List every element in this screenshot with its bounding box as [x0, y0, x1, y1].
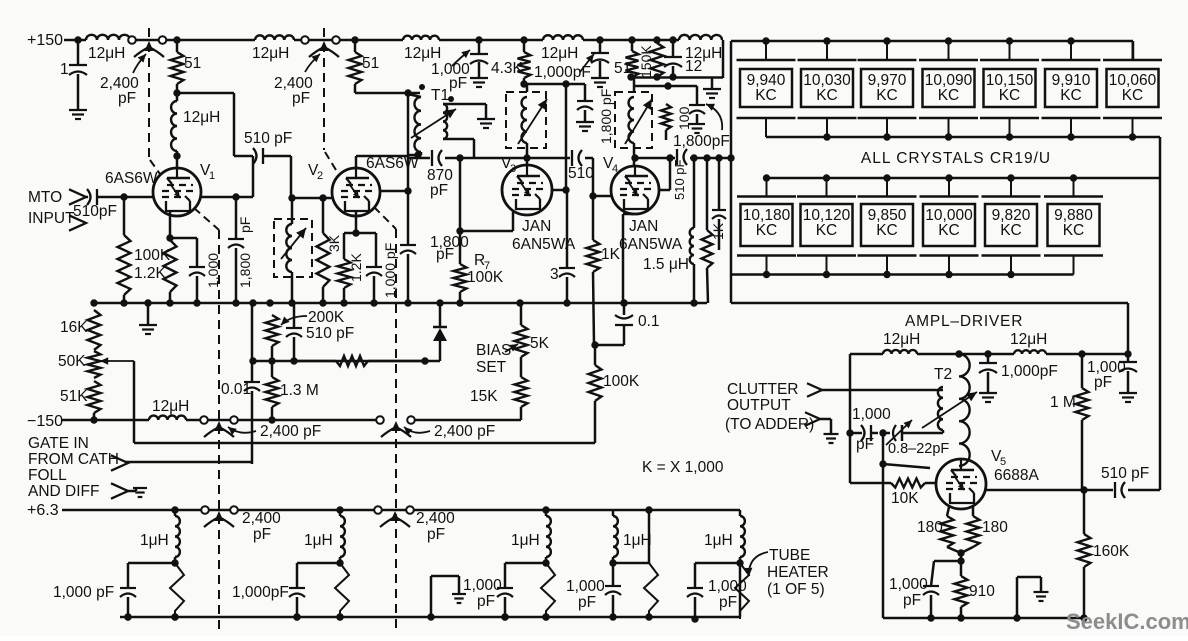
crystal 9,910 KC: [1042, 41, 1101, 137]
svg-text:6688A: 6688A: [994, 467, 1039, 484]
junction V4 grid line: [631, 154, 638, 161]
svg-text:1,000 pF: 1,000 pF: [53, 584, 114, 601]
capacitor 510 interstage V3-V4: [527, 150, 594, 182]
svg-text:1.3 M: 1.3 M: [280, 382, 319, 399]
wire V1 cathode to cap: [170, 238, 197, 267]
svg-text:12μH: 12μH: [252, 45, 289, 62]
svg-text:AMPL–DRIVER: AMPL–DRIVER: [905, 313, 1023, 330]
wire bias line y361: [249, 357, 428, 364]
junction ampl rail dots: [955, 350, 1085, 357]
feedthrough 2,400pF +6.3 shield2: [374, 506, 455, 543]
svg-text:pF: pF: [292, 90, 310, 107]
svg-text:12μH: 12μH: [541, 45, 578, 62]
svg-text:510: 510: [568, 165, 594, 182]
wire crystal right link: [1159, 137, 1162, 490]
svg-text:OUTPUT: OUTPUT: [727, 397, 791, 414]
svg-text:1,000pF: 1,000pF: [1001, 363, 1058, 380]
svg-text:+6.3: +6.3: [27, 502, 59, 519]
junction heater rail dots: [171, 506, 652, 513]
capacitor 1,800pF V1 plate: [201, 193, 253, 303]
resistor R7 100K: [454, 158, 504, 303]
variable inductor V3 grid (dashed box): [506, 84, 547, 165]
svg-text:10K: 10K: [891, 490, 919, 507]
label JAN 6AN5WA V3: [512, 218, 576, 253]
resistor 1K V4 grid: [587, 158, 621, 345]
svg-text:pF: pF: [449, 75, 467, 92]
capacitor 1,800pF V3 plate: [576, 84, 614, 144]
svg-text:−150: −150: [27, 413, 63, 430]
capacitor 1,000 pF cathode: [889, 561, 961, 618]
label 6AS6W V1: [105, 170, 158, 187]
svg-text:KC: KC: [756, 222, 778, 239]
junction V1 top: [173, 152, 180, 169]
wire gate arrow link: [125, 461, 252, 464]
svg-text:200K: 200K: [308, 309, 345, 326]
svg-text:1μH: 1μH: [511, 532, 540, 549]
tube V3 6AN5WA: [502, 165, 552, 215]
capacitor 1,000pF rail bypass 2: [534, 40, 609, 87]
heater stage 1: [53, 510, 184, 621]
svg-text:510 pF: 510 pF: [672, 159, 687, 200]
svg-text:MTO: MTO: [28, 189, 62, 206]
crystal 10,180 KC: [737, 178, 796, 275]
wire +6.3 rail: [62, 509, 740, 512]
junction crystal input: [727, 154, 734, 161]
heater stage 5: [687, 510, 749, 623]
capacitor 510pF 200K: [286, 303, 354, 361]
resistor 16K: [60, 310, 101, 350]
crystal 9,940 KC: [737, 41, 796, 137]
wire crystal top bus: [731, 41, 1133, 60]
wire V4 cathode: [623, 214, 635, 303]
svg-text:2: 2: [317, 170, 323, 182]
resistor 51K: [60, 381, 101, 420]
junction +150/V1: [173, 36, 180, 43]
junction rail x657: [653, 36, 660, 43]
wire clutter to T2: [822, 389, 943, 392]
svg-text:pF: pF: [903, 592, 921, 609]
inductor 12uH rail 4: [541, 35, 583, 62]
svg-text:KC: KC: [876, 87, 898, 104]
label V3: [501, 155, 516, 175]
capacitor 1,000pF rail bypass 1: [431, 40, 488, 92]
feedthrough capacitor 2,400pF shield1: [100, 36, 166, 107]
connector CLUTTER OUTPUT: [725, 381, 822, 433]
svg-text:15K: 15K: [470, 388, 498, 405]
svg-text:160K: 160K: [1093, 543, 1130, 560]
wire ampl left drop: [849, 354, 852, 433]
crystal 10,060 KC: [1103, 41, 1162, 137]
svg-text:T2: T2: [934, 366, 952, 383]
wire V2 plate node: [355, 89, 420, 96]
svg-text:KC: KC: [816, 222, 838, 239]
svg-text:T1: T1: [431, 87, 449, 104]
wire ampl bottom bus: [883, 617, 1086, 620]
svg-text:SET: SET: [476, 359, 507, 376]
svg-text:1,000: 1,000: [708, 578, 747, 595]
transformer T2: [922, 354, 977, 466]
ground node A: [703, 78, 721, 99]
capacitor 0.1: [591, 299, 659, 348]
capacitor 12: [664, 40, 702, 78]
capacitor 1,800pF output coupling: [635, 149, 731, 165]
wire gate line: [134, 442, 595, 445]
junction rail x600: [596, 36, 603, 43]
svg-text:1μH: 1μH: [140, 532, 169, 549]
label AMPL-DRIVER: [905, 313, 1023, 330]
wire crystal row2 bottom bus: [731, 273, 1074, 276]
svg-text:INPUT: INPUT: [28, 210, 75, 227]
svg-text:ALL CRYSTALS CR19/U: ALL CRYSTALS CR19/U: [861, 150, 1051, 167]
crystal 9,880 KC: [1044, 178, 1103, 275]
inductor 12uH rail 5: [679, 35, 722, 62]
svg-text:SeekIC.com: SeekIC.com: [1066, 609, 1188, 634]
junction rail x632: [628, 36, 635, 43]
capacitor 1 (input filter): [60, 36, 87, 119]
svg-text:2,400: 2,400: [242, 510, 281, 527]
resistor 3K: [317, 198, 343, 303]
svg-text:51K: 51K: [60, 388, 88, 405]
svg-text:100: 100: [676, 106, 692, 130]
resistor 1.2K V2: [338, 233, 365, 303]
wire 870 line: [408, 150, 527, 199]
svg-text:KC: KC: [1063, 222, 1085, 239]
svg-text:KC: KC: [816, 87, 838, 104]
capacitor 1,800pF V4 bypass: [673, 104, 730, 150]
wire node B y86: [634, 78, 697, 106]
svg-text:6AS6W: 6AS6W: [105, 170, 158, 187]
junction cathode: [957, 549, 964, 564]
wire -150 rail: [62, 416, 521, 423]
wire V2 cathode: [352, 210, 359, 237]
junction V3 grid line: [523, 154, 530, 161]
svg-text:1,800 pF: 1,800 pF: [598, 89, 614, 144]
svg-text:510 pF: 510 pF: [244, 130, 292, 147]
label BIAS SET: [476, 342, 518, 376]
capacitor 3 V3 plate: [550, 190, 575, 303]
tube V5 6688A: [936, 459, 986, 509]
wire V4 plate: [659, 154, 674, 190]
svg-text:KC: KC: [876, 222, 898, 239]
resistor 160K: [1078, 490, 1130, 618]
svg-text:2,400 pF: 2,400 pF: [260, 423, 321, 440]
resistor 100K 1.2K grid: [118, 197, 171, 303]
junction V1 51/coil: [173, 89, 180, 96]
wire V2 grid: [288, 194, 332, 201]
svg-text:4.3K: 4.3K: [491, 60, 524, 77]
svg-text:3K: 3K: [326, 234, 342, 252]
crystal 9,820 KC: [982, 178, 1041, 275]
svg-text:12μH: 12μH: [183, 109, 220, 126]
wire crystal row2 top bus: [766, 177, 1160, 180]
resistor 180 right: [961, 507, 1008, 553]
feedthrough capacitor 2,400pF shield2: [274, 36, 340, 107]
transformer T1: [408, 84, 495, 159]
svg-text:12: 12: [685, 58, 702, 75]
label V2: [308, 162, 323, 182]
resistor 10K: [850, 433, 936, 507]
resistor 100K bias: [589, 345, 640, 443]
resistor 200K pot: [266, 309, 345, 346]
label V1: [200, 162, 215, 182]
wire crystal to ampl connector: [731, 303, 1128, 354]
resistor 51 (V2 plate): [349, 40, 380, 93]
shield partition 2 lower: [374, 207, 396, 631]
junction V1 grid: [120, 193, 127, 200]
svg-text:510 pF: 510 pF: [306, 325, 354, 342]
connector GATE IN: [28, 435, 128, 500]
svg-text:(1 OF 5): (1 OF 5): [767, 581, 825, 598]
connector MTO INPUT: [28, 189, 86, 231]
resistor 4.3K: [491, 40, 531, 84]
svg-text:CLUTTER: CLUTTER: [727, 381, 798, 398]
svg-text:51: 51: [362, 55, 379, 72]
resistor 100 bias: [294, 356, 425, 366]
resistor 150K: [638, 40, 664, 78]
svg-text:FROM CATH: FROM CATH: [28, 451, 119, 468]
svg-text:1 M: 1 M: [1050, 394, 1076, 411]
shield partition 1 upper: [149, 28, 160, 174]
svg-text:150K: 150K: [638, 45, 654, 78]
tube V1 6AS6W: [153, 168, 201, 216]
inductor 12uH V1 plate: [171, 93, 220, 156]
capacitor 510 pF output: [672, 158, 726, 250]
resistor 1K output: [702, 158, 727, 303]
ground heater 3: [427, 576, 466, 621]
wire node A y78: [627, 73, 723, 80]
svg-text:510 pF: 510 pF: [1101, 465, 1149, 482]
svg-text:1,000: 1,000: [205, 253, 221, 288]
svg-text:1,000: 1,000: [463, 577, 502, 594]
svg-text:AND DIFF: AND DIFF: [28, 483, 99, 500]
watermark SeekIC.com: [1066, 609, 1188, 634]
svg-text:12μH: 12μH: [152, 398, 189, 415]
inductor 12uH ampl 1: [883, 331, 920, 354]
svg-text:1,000: 1,000: [566, 578, 605, 595]
svg-text:2,400: 2,400: [416, 510, 455, 527]
svg-text:50K: 50K: [58, 353, 86, 370]
svg-text:FOLL: FOLL: [28, 467, 67, 484]
svg-text:pF: pF: [719, 594, 737, 611]
wire V2 top stub: [356, 93, 408, 191]
svg-text:100K: 100K: [134, 247, 171, 264]
svg-text:1,000pF: 1,000pF: [534, 64, 591, 81]
junction clutter node: [879, 429, 886, 436]
junction dots row2 bottom bus: [763, 271, 1015, 278]
resistor 1M: [1050, 354, 1089, 490]
svg-text:180: 180: [917, 519, 943, 536]
svg-text:KC: KC: [1060, 87, 1082, 104]
label JAN 6AN5WA V4: [619, 218, 683, 253]
svg-text:1μH: 1μH: [623, 532, 652, 549]
svg-text:3: 3: [550, 266, 559, 283]
inductor 12uH rail 1: [86, 35, 130, 62]
svg-text:1μH: 1μH: [704, 532, 733, 549]
wire V1 plate to 510pF: [177, 93, 253, 156]
svg-text:1: 1: [209, 170, 215, 182]
label TUBE HEATER: [745, 547, 829, 598]
svg-text:JAN: JAN: [629, 218, 658, 235]
svg-text:1.5 μH: 1.5 μH: [643, 256, 689, 273]
feedthrough 2,400pF -150 shield2: [376, 416, 495, 440]
svg-text:510pF: 510pF: [73, 203, 117, 220]
svg-text:pF: pF: [237, 217, 253, 233]
crystal 10,120 KC: [797, 178, 856, 275]
net -150 label: [27, 413, 63, 430]
svg-text:TUBE: TUBE: [769, 547, 810, 564]
inductor 12uH rail 3: [403, 36, 441, 62]
svg-text:1,800: 1,800: [237, 253, 253, 288]
svg-text:12μH: 12μH: [1010, 331, 1047, 348]
svg-text:100K: 100K: [467, 269, 504, 286]
capacitor 1,800pF V2 plate: [380, 187, 469, 303]
svg-text:1: 1: [60, 61, 69, 78]
svg-text:1,000 pF: 1,000 pF: [382, 243, 398, 298]
svg-text:1,800pF: 1,800pF: [673, 133, 730, 150]
wire ground bus: [94, 302, 707, 305]
crystal 10,090 KC: [919, 41, 978, 137]
svg-text:GATE IN: GATE IN: [28, 435, 89, 452]
wire V3 plate node: [520, 80, 585, 87]
svg-text:6AN5WA: 6AN5WA: [619, 236, 683, 253]
wire 50K tap: [133, 361, 136, 443]
svg-text:0.8–22pF: 0.8–22pF: [888, 441, 949, 457]
svg-text:+150: +150: [27, 32, 63, 49]
wire V1 cathode: [166, 210, 173, 242]
resistor V1 cathode: [164, 240, 177, 303]
capacitor 1,000 pF V2 cathode: [356, 233, 398, 303]
svg-text:1,000: 1,000: [889, 576, 928, 593]
wire heater bottom bus: [120, 563, 740, 617]
label 6688A: [994, 467, 1039, 484]
crystal 9,970 KC: [858, 41, 917, 137]
resistor 51 (V1 plate): [171, 40, 202, 93]
wire grid riser: [879, 433, 930, 468]
resistor 910: [955, 561, 996, 618]
capacitor 0.01: [221, 381, 260, 398]
tube V4 6AN5WA: [611, 166, 659, 214]
svg-text:1,000: 1,000: [852, 406, 891, 423]
wire crystal row1 bottom bus: [766, 136, 1160, 139]
svg-text:pF: pF: [856, 436, 874, 453]
resistor 50K pot: [58, 351, 134, 378]
wire crystal left frame: [730, 41, 733, 303]
svg-text:1K: 1K: [601, 246, 621, 263]
junction dots ground bus: [90, 299, 697, 306]
resistor 5K pot: [515, 303, 550, 357]
junction rail x673: [669, 36, 676, 43]
svg-text:5K: 5K: [530, 335, 550, 352]
heater stage 3: [463, 510, 555, 621]
svg-text:12μH: 12μH: [883, 331, 920, 348]
svg-text:910: 910: [969, 583, 995, 600]
wire +150 rail: [72, 39, 679, 42]
label ALL CRYSTALS CR19/U: [861, 150, 1051, 167]
svg-text:0.1: 0.1: [638, 313, 660, 330]
svg-text:HEATER: HEATER: [767, 564, 829, 581]
wire V3 plate: [552, 84, 570, 194]
capacitor 1,000 pF ampl 2: [1087, 354, 1137, 402]
wire V5 plate: [985, 486, 1088, 493]
wire gate riser: [251, 303, 254, 464]
svg-text:3: 3: [510, 163, 516, 175]
net +6.3 label: [27, 502, 59, 519]
svg-text:pF: pF: [430, 182, 448, 199]
svg-text:(TO ADDER): (TO ADDER): [725, 416, 814, 433]
svg-text:12μH: 12μH: [404, 45, 441, 62]
junction rail x524: [520, 36, 527, 43]
capacitor 1,000 pF clutter: [846, 406, 891, 453]
svg-text:1,000pF: 1,000pF: [232, 584, 289, 601]
svg-text:180: 180: [982, 519, 1008, 536]
junction dots ampl bottom: [927, 614, 1087, 621]
svg-text:100K: 100K: [603, 373, 640, 390]
wire rail end drop: [722, 40, 723, 78]
wire ampl rail: [850, 350, 1132, 357]
svg-text:pF: pF: [578, 594, 596, 611]
svg-text:51: 51: [184, 55, 201, 72]
tube V2 6AS6W: [332, 168, 380, 216]
svg-text:JAN: JAN: [522, 218, 551, 235]
svg-text:pF: pF: [436, 246, 454, 263]
resistor 51 (V4): [614, 40, 639, 77]
inductor 1.5uH: [643, 158, 694, 303]
feedthrough 2,400pF +6.3 shield1: [201, 506, 281, 543]
variable inductor V4 grid (dashed box): [615, 86, 652, 165]
svg-text:pF: pF: [118, 90, 136, 107]
capacitor 1,000 V1 cathode: [189, 253, 221, 303]
junction dots row1 bottom bus: [823, 133, 1136, 140]
feedthrough 2,400pF -150 shield1: [200, 416, 321, 440]
svg-text:KC: KC: [1000, 222, 1022, 239]
junction rail x479: [475, 36, 482, 43]
capacitor 510 pF output: [1084, 465, 1160, 498]
crystal 10,030 KC: [798, 41, 857, 137]
svg-text:KC: KC: [938, 87, 960, 104]
svg-text:KC: KC: [1122, 87, 1144, 104]
inductor 12uH ampl 2: [1010, 331, 1047, 354]
ground clutter: [820, 419, 839, 443]
svg-text:1.2K: 1.2K: [134, 265, 167, 282]
inductor 12uH -150: [149, 398, 189, 420]
wire grid riser down: [882, 464, 885, 618]
svg-text:12μH: 12μH: [88, 45, 125, 62]
junction dots heater bottom: [124, 613, 549, 620]
crystal 10,150 KC: [980, 41, 1039, 137]
wire V3 cathode: [456, 212, 513, 235]
label 6AS6W V2: [366, 155, 419, 172]
svg-text:KC: KC: [999, 87, 1021, 104]
svg-text:KC: KC: [938, 222, 960, 239]
svg-text:1.2K: 1.2K: [348, 253, 364, 282]
resistor 100: [661, 104, 692, 140]
crystal 9,850 KC: [858, 178, 917, 275]
wire 510pF to V2 grid: [263, 156, 291, 198]
capacitor 1,000pF ampl 1: [979, 354, 1058, 402]
shield partition 2 upper: [324, 28, 336, 170]
crystal 10,000 KC: [920, 178, 979, 275]
svg-text:KC: KC: [755, 87, 777, 104]
resistor 1.3M: [266, 361, 319, 420]
svg-text:pF: pF: [477, 593, 495, 610]
wire V1 plate riser: [236, 156, 253, 197]
label V4: [603, 155, 618, 175]
svg-text:2,400 pF: 2,400 pF: [434, 423, 495, 440]
resistor 15K: [470, 357, 528, 420]
inductor 12uH rail 2: [252, 35, 294, 62]
diode CR1: [425, 303, 447, 361]
capacitor 510pF interstage V1-V2: [244, 130, 292, 164]
